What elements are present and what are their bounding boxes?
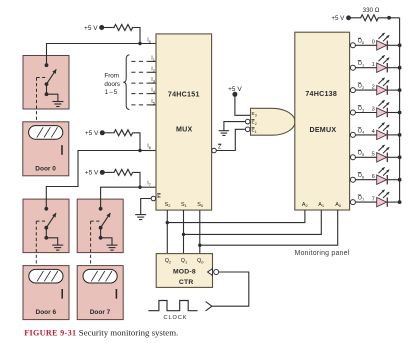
node I6 junction: [138, 149, 141, 152]
resistor R1 (I0 pull-up): [102, 25, 134, 31]
svg-text:Door 7: Door 7: [90, 309, 111, 316]
ground (SW6): [52, 245, 63, 250]
resistor R4 330 ohm: [349, 15, 380, 21]
door window (Door 7): [83, 269, 117, 283]
wire R4 to LED rail: [380, 16, 400, 20]
ground (SW0): [52, 102, 63, 107]
ground (gate E2): [219, 131, 229, 136]
mechanical linkage dashes (SW7): [91, 220, 101, 222]
svg-text:4: 4: [372, 129, 375, 135]
svg-text:O1: O1: [358, 61, 365, 67]
pin O3 output of U2 (bubble): [350, 110, 355, 115]
wire U2 O5 to LED D5: [355, 156, 376, 158]
door handle (Door 7): [115, 289, 117, 299]
svg-text:7: 7: [372, 196, 375, 202]
switch SW7 blade arrow: [101, 213, 111, 228]
svg-text:Q1: Q1: [181, 258, 188, 264]
node Q0/S0/A0 junction: [198, 244, 201, 247]
svg-text:Q0: Q0: [197, 258, 204, 264]
wire U2 O3 to LED D3: [355, 112, 376, 114]
svg-text:doors: doors: [104, 81, 120, 88]
svg-text:I6: I6: [147, 144, 152, 150]
door sensor switch SW0 box: [23, 56, 69, 110]
power +5V (LED rail): [331, 15, 351, 22]
svg-text:O3: O3: [358, 106, 365, 112]
switch SW6 blade arrow: [46, 213, 56, 228]
pin O6 output of U2 (bubble): [350, 177, 355, 182]
pin O0 output of U2 (bubble): [350, 43, 355, 48]
svg-text:FIGURE 9-31: FIGURE 9-31: [24, 329, 76, 338]
wire R2 to node I6: [134, 133, 140, 151]
wire bus Q0 to U2 A0: [200, 210, 338, 245]
svg-text:2: 2: [372, 84, 375, 90]
wire +5V to gate input E3: [235, 94, 251, 115]
svg-text:O0: O0: [358, 39, 365, 45]
pin O2 output of U2 (bubble): [350, 88, 355, 93]
ground (U1 enable): [135, 215, 146, 220]
svg-text:Door 6: Door 6: [36, 309, 57, 316]
clock waveform symbol: [148, 301, 197, 311]
svg-text:1–5: 1–5: [105, 89, 119, 96]
wire switch SW6 to node I6: [46, 151, 140, 209]
LED D3: [377, 100, 390, 117]
svg-text:O5: O5: [358, 151, 365, 157]
gate G1 74HC138 enable AND body: [251, 108, 296, 135]
wire LED D2 cathode to +5V rail: [388, 88, 402, 92]
wire S2-Q2 (U1 S2 to U4 Q2): [166, 210, 168, 254]
wire switch SW0 to I0 pin of U1: [47, 44, 157, 66]
gate input bubble E2: [245, 119, 250, 124]
svg-text:A2: A2: [302, 202, 309, 208]
node I7 junction: [138, 186, 141, 189]
LED D5: [377, 145, 390, 162]
wire LED D4 cathode to +5V rail: [388, 133, 402, 137]
LED D7: [377, 190, 390, 207]
pin O5 output of U2 (bubble): [350, 155, 355, 160]
pin Z output of U1 (bubble): [212, 148, 217, 153]
power +5V (I6 pull-up): [85, 130, 105, 137]
svg-text:+5 V: +5 V: [84, 25, 98, 32]
LED D1: [377, 55, 390, 72]
wire LED D1 cathode to +5V rail: [388, 66, 402, 70]
svg-text:+5 V: +5 V: [331, 15, 345, 22]
svg-text:74HC138: 74HC138: [305, 90, 337, 98]
wire U2 O1 to LED D1: [355, 67, 376, 69]
svg-text:5: 5: [372, 152, 375, 158]
svg-text:330 Ω: 330 Ω: [363, 7, 380, 14]
power +5V (I7 pull-up): [85, 170, 105, 177]
pin O7 output of U2 (bubble): [350, 200, 355, 205]
mechanical linkage dashes (SW0): [37, 77, 47, 79]
wire clock source to U4 clock input: [212, 272, 249, 306]
svg-text:Z: Z: [218, 145, 222, 151]
clock input bubble of U4: [214, 270, 219, 275]
node I0 junction: [138, 42, 141, 45]
svg-text:S2: S2: [165, 202, 172, 208]
svg-text:0: 0: [372, 40, 375, 46]
svg-text:+5 V: +5 V: [85, 130, 99, 137]
svg-text:O6: O6: [358, 173, 365, 179]
svg-text:Door 0: Door 0: [35, 165, 56, 172]
power +5V (I0 pull-up): [84, 25, 104, 32]
door sensor switch SW6 box: [23, 199, 69, 253]
door handle (Door 6): [61, 289, 63, 299]
svg-text:MUX: MUX: [176, 126, 193, 134]
wire gate input E2 to ground: [224, 122, 246, 131]
wire SW7 bottom contact to ground: [101, 238, 112, 245]
wire S0-Q0 (U1 S0 to U4 Q0): [199, 210, 201, 254]
wire SW0 bottom contact to ground: [47, 94, 58, 101]
multiplexer U1 74HC151 body: [156, 34, 212, 210]
wire U2 O0 to LED D0: [355, 44, 376, 46]
svg-text:Security monitoring system.: Security monitoring system.: [79, 328, 178, 338]
ground (SW7): [107, 245, 118, 250]
svg-text:Monitoring panel: Monitoring panel: [295, 250, 350, 257]
svg-text:From: From: [104, 72, 119, 79]
wire SW6 bottom contact to ground: [46, 238, 57, 245]
mechanical linkage SW7 to Door 7 (dashed): [90, 221, 92, 266]
svg-text:Q2: Q2: [165, 258, 172, 264]
svg-text:CTR: CTR: [179, 279, 194, 286]
wires from doors 1-5 (inputs I1-I5, dashed): [131, 61, 156, 105]
door sensor switch SW7 box: [77, 199, 123, 253]
LED D6: [377, 167, 390, 184]
node Q1/S1/A1 junction: [182, 233, 185, 236]
door body Door 7: [77, 266, 123, 320]
svg-text:O7: O7: [358, 196, 365, 202]
mechanical linkage dashes (SW6): [36, 220, 46, 222]
switch SW7 contacts and blade: [99, 207, 103, 240]
wire +5V rail (LED anode rail): [399, 18, 401, 202]
door body Door 0: [23, 122, 69, 176]
LED D2: [377, 78, 390, 95]
wire U2 O6 to LED D6: [355, 179, 376, 181]
svg-text:74HC151: 74HC151: [168, 91, 200, 99]
resistor R2 (I6 pull-up): [102, 130, 134, 136]
svg-text:I7: I7: [147, 180, 152, 186]
svg-text:A1: A1: [318, 202, 325, 208]
mechanical linkage SW6 to Door 6 (dashed): [35, 221, 37, 266]
svg-text:S1: S1: [181, 202, 188, 208]
wire LED D3 cathode to +5V rail: [388, 111, 402, 115]
wire R3 to node I7: [134, 172, 140, 187]
gate input bubble E1: [245, 127, 250, 132]
switch SW0 contacts and blade: [45, 63, 49, 96]
wire U2 O2 to LED D2: [355, 89, 376, 91]
wire LED D7 cathode to +5V rail: [388, 200, 402, 204]
svg-text:A0: A0: [335, 202, 342, 208]
brace for doors 1-5 group: [123, 55, 129, 110]
clock source chevron: [206, 302, 212, 311]
wire LED D0 cathode to +5V rail: [388, 43, 402, 47]
demultiplexer U2 74HC138 body: [295, 32, 350, 210]
mechanical linkage SW0 to Door 0 (dashed): [36, 78, 38, 122]
pin E enable of U1 (bubble): [151, 196, 156, 201]
wire LED D5 cathode to +5V rail: [388, 155, 402, 159]
svg-text:E: E: [157, 194, 161, 200]
svg-text:3: 3: [372, 107, 375, 113]
LED D4: [377, 123, 390, 140]
svg-text:+5 V: +5 V: [85, 170, 99, 177]
wire switch SW7 to node I7: [101, 187, 140, 208]
counter U4 MOD-8 CTR body: [156, 254, 212, 288]
wire U1 E to ground: [141, 199, 151, 215]
wire R1 to node I0: [134, 28, 140, 44]
wire LED D6 cathode to +5V rail: [388, 178, 402, 182]
resistor R3 (I7 pull-up): [102, 169, 134, 175]
wire node I6 to U1 pin I6: [140, 150, 156, 152]
wire U2 O4 to LED D4: [355, 134, 376, 136]
door handle (Door 0): [61, 145, 63, 155]
switch SW6 contacts and blade: [44, 207, 48, 240]
label From doors 1-5: [104, 72, 120, 96]
door body Door 6: [23, 266, 69, 320]
svg-text:S0: S0: [197, 202, 204, 208]
node Q2/S2/A2 junction: [166, 221, 169, 224]
pin O4 output of U2 (bubble): [350, 132, 355, 137]
LED D0: [377, 33, 390, 50]
wire S1-Q1 (U1 S1 to U4 Q1): [183, 210, 185, 254]
door window (Door 6): [29, 269, 63, 283]
wire U2 O7 to LED D7: [355, 201, 376, 203]
wire Z to gate input E1: [216, 129, 245, 150]
wire bus Q1 to U2 A1: [184, 210, 322, 234]
svg-text:DEMUX: DEMUX: [309, 126, 336, 134]
svg-text:CLOCK: CLOCK: [164, 315, 188, 321]
wire bus Q2 to U2 A2: [167, 210, 305, 223]
svg-text:MOD-8: MOD-8: [173, 269, 196, 276]
power +5V (gate E3): [228, 86, 242, 97]
clock input wedge of U4: [208, 269, 213, 276]
svg-text:6: 6: [372, 174, 375, 180]
switch SW0 blade arrow: [47, 69, 57, 84]
svg-text:O4: O4: [358, 128, 365, 134]
svg-text:O2: O2: [358, 84, 365, 90]
wire node I7 to U1 pin I7: [140, 186, 156, 188]
door window (Door 0): [29, 126, 63, 140]
pin O1 output of U2 (bubble): [350, 65, 355, 70]
svg-text:1: 1: [372, 62, 375, 68]
